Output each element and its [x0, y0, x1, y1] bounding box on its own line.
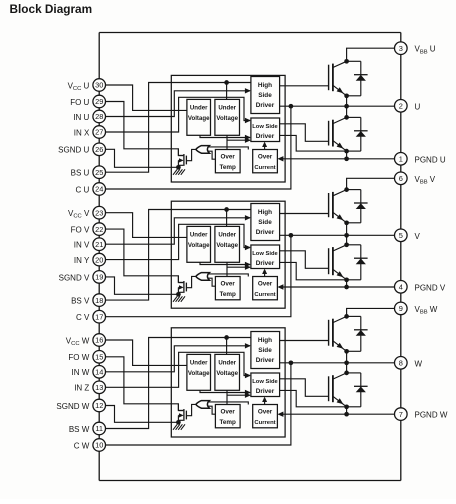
- box UW2 under-voltage 2: [215, 354, 240, 390]
- svg-text:19: 19: [95, 273, 103, 282]
- svg-text:13: 13: [95, 383, 103, 392]
- wire under-voltage 1 out to low-side driver: [200, 262, 250, 264]
- svg-text:25: 25: [95, 168, 103, 177]
- box UW1 under-voltage 1: [187, 354, 211, 390]
- wire VCC W pin to under-voltage 1: [106, 340, 187, 365]
- wire over-current to OR input: [208, 147, 249, 150]
- pin 30 V U circle: [93, 79, 106, 92]
- svg-text:11: 11: [95, 424, 103, 433]
- ground SGND U: [177, 167, 179, 169]
- svg-text:Over: Over: [221, 281, 236, 288]
- svg-text:Voltage: Voltage: [216, 370, 238, 377]
- wire over-current to OR input: [208, 402, 249, 405]
- svg-text:Side: Side: [258, 219, 272, 226]
- wire BS W to under-voltage 2: [226, 338, 228, 355]
- pin 10 C W circle: [93, 439, 106, 452]
- block W gate-driver boundary: [171, 328, 285, 437]
- transistor MV fault output MOSFET: [183, 281, 185, 293]
- svg-text:PGND W: PGND W: [415, 411, 448, 420]
- wire over-temp to OR input: [208, 278, 216, 286]
- wire phase W node row: [280, 362, 395, 364]
- pin 23 V V circle: [93, 206, 106, 219]
- svg-text:15: 15: [95, 353, 103, 362]
- junction PGND W on IGBT column: [344, 412, 349, 417]
- pin 1 circle: [395, 153, 408, 166]
- junction emitter QU1: [344, 93, 349, 98]
- svg-text:High: High: [258, 209, 272, 216]
- wire BS V pin to high-side driver: [106, 210, 251, 301]
- diode DV1 freewheel high: [347, 189, 361, 191]
- wire BS V to under-voltage 2: [226, 210, 228, 227]
- svg-text:5: 5: [399, 231, 403, 240]
- pin 19 SGND V circle: [93, 271, 106, 284]
- wire high-side driver to IGBT gate: [280, 213, 328, 215]
- gate OR fault W: [196, 401, 210, 409]
- pin 20 IN Y circle: [93, 253, 106, 266]
- wire PGND W row to over-current sense: [283, 413, 395, 415]
- svg-text:10: 10: [95, 441, 103, 450]
- svg-text:Current: Current: [254, 165, 275, 171]
- box UU1 under-voltage 1: [187, 99, 211, 135]
- svg-text:SGND U: SGND U: [58, 146, 89, 155]
- junction BS W to under-voltage 2: [224, 335, 229, 340]
- wire VBS U to high-side collector: [347, 48, 395, 61]
- wire low-side driver to IGBT gate: [280, 379, 328, 397]
- wire SGND U pin to ground node: [106, 149, 179, 167]
- svg-text:Driver: Driver: [256, 260, 275, 267]
- svg-text:Temp: Temp: [220, 291, 236, 298]
- svg-text:3: 3: [399, 44, 403, 53]
- svg-text:BS V: BS V: [71, 297, 90, 306]
- box W high-side driver: [251, 332, 280, 369]
- junction phase U on IGBT column: [344, 104, 349, 109]
- diode DW1 freewheel high: [347, 315, 361, 317]
- svg-text:Over: Over: [221, 154, 236, 161]
- wire under-voltage 2 to over-temp: [226, 390, 228, 404]
- diode DV2 freewheel low: [347, 244, 361, 246]
- junction phase W on IGBT column: [344, 360, 349, 365]
- pin 24 C U circle: [93, 183, 106, 196]
- transistor QU2 low-side IGBT: [328, 121, 330, 146]
- svg-text:24: 24: [95, 185, 103, 194]
- transistor QW2 low-side IGBT: [328, 376, 330, 401]
- pin 4 circle: [395, 281, 408, 294]
- svg-text:Voltage: Voltage: [188, 242, 210, 249]
- svg-text:IN U: IN U: [73, 113, 89, 122]
- svg-text:W: W: [415, 359, 423, 368]
- svg-text:7: 7: [399, 410, 403, 419]
- svg-text:29: 29: [95, 97, 103, 106]
- wire IGBT column U: [346, 96, 348, 118]
- junction emitter QU2: [344, 149, 349, 154]
- pin 21 IN V circle: [93, 238, 106, 251]
- wire PGND V row to over-current sense: [283, 286, 395, 288]
- wire over-temp to OR input: [208, 151, 216, 159]
- wire FO V pin to fault transistor drain: [106, 229, 184, 282]
- wire low-side driver to IGBT gate: [280, 251, 328, 268]
- wire BS W pin to high-side driver: [106, 338, 251, 429]
- svg-text:6: 6: [399, 174, 403, 183]
- wire under-voltage 2 to over-temp: [226, 262, 228, 276]
- wire SGND V pin to ground node: [106, 277, 179, 294]
- svg-text:Driver: Driver: [256, 357, 275, 364]
- svg-text:Over: Over: [221, 409, 236, 416]
- wire over-temp out to low-side driver: [227, 139, 250, 141]
- svg-text:PGND U: PGND U: [415, 155, 446, 164]
- svg-text:PGND V: PGND V: [415, 283, 446, 292]
- svg-text:26: 26: [95, 145, 103, 154]
- svg-text:Under: Under: [190, 231, 208, 238]
- box U over-temp: [215, 150, 240, 173]
- svg-text:20: 20: [95, 255, 103, 264]
- transistor MU fault output MOSFET: [183, 154, 185, 166]
- wire low-side driver emitter sense: [280, 390, 347, 406]
- svg-text:23: 23: [95, 208, 103, 217]
- gate OR fault U: [196, 146, 210, 154]
- package outline top edge: [99, 32, 401, 34]
- svg-text:27: 27: [95, 128, 103, 137]
- wire C U pin to phase node: [106, 106, 291, 189]
- block V gate-driver boundary: [171, 201, 285, 308]
- junction emitter QW1: [344, 349, 349, 354]
- svg-text:Over: Over: [258, 409, 273, 416]
- diode DU2 freewheel low: [347, 116, 361, 118]
- junction BS V to under-voltage 2: [224, 207, 229, 212]
- svg-text:14: 14: [95, 368, 103, 377]
- diode DU1 freewheel high: [347, 60, 361, 62]
- wire IN U pin to high-side driver: [106, 91, 250, 117]
- pin 9 circle: [395, 302, 408, 315]
- svg-text:Voltage: Voltage: [216, 242, 238, 249]
- pin 29 FO U circle: [93, 95, 106, 108]
- svg-text:High: High: [258, 337, 272, 344]
- block U gate-driver boundary: [171, 75, 285, 182]
- wire over-temp out to low-side driver: [227, 266, 250, 268]
- junction C V on phase node: [289, 233, 294, 238]
- wire BS U pin to high-side driver: [106, 83, 251, 173]
- transistor QV2 low-side IGBT: [328, 248, 330, 274]
- svg-text:Voltage: Voltage: [188, 115, 210, 122]
- wire C W pin to phase node: [106, 363, 291, 445]
- pin 7 circle: [395, 408, 408, 421]
- svg-text:BS U: BS U: [71, 169, 90, 178]
- wire VCC V pin to under-voltage 1: [106, 213, 187, 238]
- pin 27 IN X circle: [93, 126, 106, 139]
- wire PGND U row to over-current sense: [283, 158, 395, 160]
- transistor QW1 high-side IGBT: [328, 320, 330, 346]
- box V over-current: [253, 277, 278, 300]
- svg-text:30: 30: [95, 81, 103, 90]
- ground SGND V: [177, 294, 179, 296]
- svg-text:C W: C W: [74, 441, 90, 450]
- svg-text:IN X: IN X: [74, 128, 90, 137]
- svg-text:Voltage: Voltage: [188, 370, 210, 377]
- svg-text:C V: C V: [76, 313, 90, 322]
- pin 14 IN W circle: [93, 366, 106, 379]
- wire under-voltage 2 to over-temp: [226, 135, 228, 149]
- wire phase V node row: [280, 234, 395, 236]
- diode DW2 freewheel low: [347, 372, 361, 374]
- wire OR output to fault transistor gate: [187, 149, 196, 160]
- box UU2 under-voltage 2: [215, 99, 240, 135]
- wire over-current out to low-side driver: [264, 271, 266, 276]
- svg-text:Driver: Driver: [256, 102, 275, 109]
- wire IN V pin to high-side driver: [106, 218, 250, 244]
- wire over-temp to OR input: [208, 406, 216, 414]
- junction PGND U on IGBT column: [344, 156, 349, 161]
- svg-text:FO U: FO U: [70, 98, 89, 107]
- wire over-current out to low-side driver: [264, 399, 266, 404]
- pin 13 IN Z circle: [93, 381, 106, 394]
- box V over-temp: [215, 277, 240, 300]
- junction phase V on IGBT column: [344, 233, 349, 238]
- svg-text:17: 17: [95, 312, 103, 321]
- pin 26 SGND U circle: [93, 143, 106, 156]
- pin 12 SGND W circle: [93, 399, 106, 412]
- svg-text:Under: Under: [190, 359, 208, 366]
- wire FO W pin to fault transistor drain: [106, 357, 184, 411]
- junction collector QW1: [344, 314, 349, 319]
- box U high-side driver: [251, 77, 280, 114]
- box U low-side driver: [251, 118, 280, 142]
- pin 22 FO V circle: [93, 223, 106, 236]
- pin 2 circle: [395, 100, 408, 113]
- svg-text:Under: Under: [218, 104, 236, 111]
- svg-text:8: 8: [399, 359, 403, 368]
- wire IN aux pin to low-side driver: [106, 97, 250, 132]
- wire high-side driver to IGBT gate: [280, 340, 328, 342]
- pin 18 BS V circle: [93, 294, 106, 307]
- wire over-current out to low-side driver: [264, 144, 266, 149]
- svg-text:Low Side: Low Side: [252, 251, 278, 257]
- svg-text:Block Diagram: Block Diagram: [10, 2, 93, 16]
- box U over-current: [253, 150, 278, 173]
- wire under-voltage 1 out to low-side driver: [200, 135, 250, 137]
- wire BS U to under-voltage 2: [226, 83, 228, 100]
- junction collector QV2: [344, 242, 349, 247]
- box W over-temp: [215, 405, 240, 428]
- svg-text:18: 18: [95, 296, 103, 305]
- svg-text:High: High: [258, 82, 272, 89]
- svg-text:Low Side: Low Side: [252, 124, 278, 130]
- svg-text:V: V: [415, 232, 421, 241]
- wire C V pin to phase node: [106, 235, 291, 316]
- svg-text:BS W: BS W: [69, 425, 90, 434]
- svg-text:SGND W: SGND W: [56, 402, 89, 411]
- svg-text:FO W: FO W: [68, 353, 89, 362]
- svg-text:Current: Current: [254, 292, 275, 298]
- pin 8 circle: [395, 357, 408, 370]
- junction emitter QV2: [344, 277, 349, 282]
- wire IGBT column V: [346, 223, 348, 245]
- svg-text:Side: Side: [258, 92, 272, 99]
- wire IN W pin to high-side driver: [106, 346, 250, 372]
- svg-text:IN Z: IN Z: [74, 384, 89, 393]
- pin 11 BS W circle: [93, 422, 106, 435]
- package outline left edge: [98, 33, 100, 79]
- svg-text:Under: Under: [218, 231, 236, 238]
- svg-text:IN W: IN W: [72, 368, 90, 377]
- box W over-current: [253, 405, 278, 428]
- pin 17 C V circle: [93, 310, 106, 323]
- svg-text:9: 9: [399, 304, 403, 313]
- junction collector QV1: [344, 187, 349, 192]
- package outline right edge: [400, 33, 402, 42]
- svg-text:Under: Under: [218, 359, 236, 366]
- svg-text:U: U: [415, 102, 421, 111]
- svg-text:22: 22: [95, 225, 103, 234]
- svg-text:FO V: FO V: [71, 226, 90, 235]
- svg-text:C U: C U: [76, 185, 90, 194]
- svg-text:Driver: Driver: [256, 388, 275, 395]
- pin 5 circle: [395, 229, 408, 242]
- svg-text:Voltage: Voltage: [216, 115, 238, 122]
- gate OR fault V: [196, 273, 210, 281]
- box UV2 under-voltage 2: [215, 226, 240, 262]
- junction SGND V node: [176, 292, 181, 297]
- svg-text:Low Side: Low Side: [252, 379, 278, 385]
- wire VCC U pin to under-voltage 1: [106, 85, 187, 110]
- svg-text:Driver: Driver: [256, 229, 275, 236]
- transistor MW fault output MOSFET: [183, 409, 185, 421]
- junction collector QU1: [344, 59, 349, 64]
- transistor QV1 high-side IGBT: [328, 193, 330, 217]
- box V low-side driver: [251, 245, 280, 269]
- wire FO U pin to fault transistor drain: [106, 102, 184, 156]
- junction collector QW2: [344, 371, 349, 376]
- pin 28 IN U circle: [93, 110, 106, 123]
- svg-text:SGND V: SGND V: [59, 273, 90, 282]
- svg-text:1: 1: [399, 155, 403, 164]
- box V high-side driver: [251, 204, 280, 241]
- junction emitter QW2: [344, 404, 349, 409]
- wire low-side driver emitter sense: [280, 135, 347, 151]
- svg-text:Under: Under: [190, 104, 208, 111]
- svg-text:Current: Current: [254, 420, 275, 426]
- wire IN aux pin to low-side driver: [106, 352, 250, 387]
- box UV1 under-voltage 1: [187, 226, 211, 262]
- ground SGND W: [177, 422, 179, 424]
- svg-text:IN Y: IN Y: [74, 256, 90, 265]
- wire over-temp out to low-side driver: [227, 394, 250, 396]
- svg-text:2: 2: [399, 102, 403, 111]
- wire OR output to fault transistor gate: [187, 276, 196, 287]
- wire VBS W to high-side collector: [347, 308, 395, 316]
- wire left pin chain: [98, 91, 100, 95]
- junction emitter QV1: [344, 220, 349, 225]
- box W low-side driver: [251, 373, 280, 397]
- junction C W on phase node: [289, 360, 294, 365]
- junction PGND V on IGBT column: [344, 285, 349, 290]
- junction BS U to under-voltage 2: [224, 80, 229, 85]
- pin 6 circle: [395, 172, 408, 185]
- wire low-side driver to IGBT gate: [280, 124, 328, 142]
- svg-text:IN V: IN V: [74, 241, 90, 250]
- wire SGND W pin to ground node: [106, 406, 179, 423]
- wire under-voltage 1 out to low-side driver: [200, 390, 250, 392]
- svg-text:Temp: Temp: [220, 419, 236, 426]
- junction C U on phase node: [289, 104, 294, 109]
- junction SGND U node: [176, 165, 181, 170]
- svg-text:12: 12: [95, 401, 103, 410]
- svg-text:Temp: Temp: [220, 164, 236, 171]
- package outline bottom edge: [99, 480, 401, 482]
- junction collector QU2: [344, 115, 349, 120]
- svg-text:Driver: Driver: [256, 133, 275, 140]
- wire low-side driver emitter sense: [280, 262, 347, 279]
- svg-text:28: 28: [95, 112, 103, 121]
- pin 3 circle: [395, 42, 408, 55]
- wire over-current to OR input: [208, 274, 249, 277]
- junction SGND W node: [176, 420, 181, 425]
- svg-text:21: 21: [95, 240, 103, 249]
- wire phase U node row: [280, 105, 395, 107]
- pin 25 BS U circle: [93, 166, 106, 179]
- wire high-side driver to IGBT gate: [280, 85, 328, 87]
- wire VBS V to high-side collector: [347, 178, 395, 189]
- pin 16 V W circle: [93, 334, 106, 347]
- svg-text:Over: Over: [258, 154, 273, 161]
- svg-text:4: 4: [399, 283, 403, 292]
- wire OR output to fault transistor gate: [187, 404, 196, 415]
- wire right pin chain: [400, 55, 402, 100]
- wire IN aux pin to low-side driver: [106, 224, 250, 259]
- svg-text:16: 16: [95, 336, 103, 345]
- transistor QU1 high-side IGBT: [328, 65, 330, 91]
- svg-text:Over: Over: [258, 281, 273, 288]
- svg-text:Side: Side: [258, 347, 272, 354]
- pin 15 FO W circle: [93, 351, 106, 364]
- wire IGBT column W: [346, 351, 348, 373]
